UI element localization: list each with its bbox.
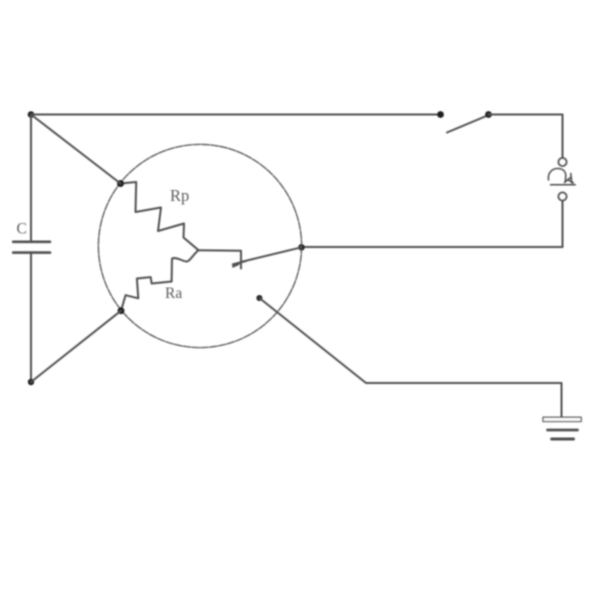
- node: upper-left terminal on envelope: [117, 180, 124, 187]
- wire: plate lead: [199, 250, 242, 268]
- wire: left rail upper: [30, 115, 32, 241]
- resistor Rp: [121, 182, 199, 250]
- switch S1 right contact: [485, 111, 492, 118]
- wire: grid lead inside tube: [242, 247, 302, 261]
- svg-text:Rp: Rp: [170, 186, 189, 205]
- node: lower-left terminal on envelope: [118, 307, 125, 314]
- node: top-left junction: [28, 111, 35, 118]
- wire: top rail from top-left node to switch left contact: [31, 114, 441, 116]
- wire: bottom-left node to tube lower terminal: [31, 311, 121, 382]
- wire: switch to top-right corner and down to key: [489, 115, 563, 158]
- node: bottom-left junction: [28, 379, 34, 385]
- label Ck (key): [548, 169, 575, 185]
- wire: key lower contact down to grid rail corner: [562, 201, 564, 248]
- node: cathode dot inside envelope: [256, 295, 262, 301]
- resistor Ra: [121, 277, 172, 311]
- wire: cathode lead to ground: [259, 298, 561, 417]
- ground symbol: [543, 417, 581, 439]
- grid electrode tick: [233, 261, 246, 267]
- terminal: key upper contact: [559, 158, 567, 166]
- terminal: key lower contact: [559, 193, 567, 201]
- capacitor C: [13, 242, 50, 253]
- switch S1 (open knife switch) left contact: [437, 111, 444, 118]
- wire: junction hook down to Ra: [172, 250, 199, 281]
- wire: top-left node to tube upper terminal: [31, 115, 121, 184]
- svg-text:C: C: [17, 221, 27, 238]
- node: grid terminal on tube envelope: [298, 244, 305, 251]
- svg-text:Ra: Ra: [165, 285, 182, 302]
- tube envelope U1: [98, 144, 301, 347]
- wire: horizontal grid rail to tube terminal: [302, 246, 563, 248]
- switch S1 blade (open): [447, 116, 488, 133]
- wire: left rail lower: [30, 254, 32, 382]
